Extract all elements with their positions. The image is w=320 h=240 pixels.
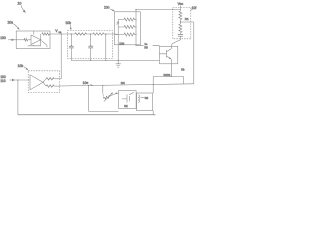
box Q outline	[137, 93, 153, 111]
U1 apex dot	[40, 39, 41, 40]
ladder wire	[67, 33, 118, 36]
junction bus3	[153, 84, 154, 85]
row dots right	[136, 19, 137, 20]
box 10c outline	[114, 12, 140, 45]
input drop to rail	[17, 80, 19, 115]
divider resistor Ra2	[124, 25, 135, 28]
resistor Rc2	[179, 24, 182, 33]
junction shuntb	[105, 60, 106, 61]
U2 lower wire to bus	[54, 85, 59, 87]
cap bottom wire	[71, 60, 159, 62]
svg-text:10a: 10a	[7, 20, 13, 24]
divider resistor Ra1	[124, 18, 135, 21]
ground	[116, 61, 121, 68]
svg-text:Vcc: Vcc	[178, 2, 184, 6]
box 10c left bus	[115, 20, 118, 61]
junction emitter	[171, 76, 172, 77]
U1 output wire	[40, 34, 42, 40]
input wire 1	[8, 39, 24, 41]
wire cap to collector	[171, 40, 180, 47]
junction gnd	[118, 60, 119, 61]
U1 diagonal feedback	[41, 41, 47, 48]
emitter wire	[170, 59, 172, 76]
svg-text:R1: R1	[185, 17, 189, 21]
output resistor R0	[42, 33, 50, 35]
top wire to Vcc box	[136, 9, 180, 11]
svg-text:10c: 10c	[104, 5, 110, 9]
bus drop to sensor	[102, 85, 104, 93]
U2 upper output lead	[43, 79, 46, 82]
leader 10f	[191, 9, 193, 10]
small mark in 10c	[116, 21, 119, 24]
junction top wire right	[172, 9, 173, 10]
box P outline	[119, 91, 137, 109]
svg-text:101: 101	[121, 81, 126, 85]
svg-text:R5: R5	[144, 45, 148, 49]
U2 lower output lead	[43, 82, 46, 86]
node vdiv	[180, 21, 181, 22]
collector wire	[170, 46, 172, 48]
resistor Rc1	[179, 11, 182, 20]
svg-text:100: 100	[0, 36, 6, 40]
node Voa dot	[61, 33, 62, 34]
arrow across sensor	[104, 93, 112, 101]
junction n1	[71, 33, 72, 34]
input arrow 2	[12, 79, 15, 81]
op-amp U1	[31, 35, 41, 45]
rail riser to sense box	[152, 111, 154, 115]
svg-text:10d: 10d	[119, 41, 124, 45]
link down to sense box	[152, 77, 154, 94]
input arrow 1	[12, 39, 15, 41]
junction n2	[90, 33, 91, 34]
sensor lead upper	[102, 94, 105, 96]
junction top wire	[135, 9, 136, 10]
svg-text:R6: R6	[145, 96, 149, 100]
feedback wire Voa to lower amp	[60, 34, 62, 79]
capacitor C3	[179, 33, 181, 40]
leader arrow 10c	[110, 9, 113, 11]
leader arrow for label 10	[21, 5, 24, 11]
dashed box ladder	[67, 31, 112, 59]
op-amp U2	[30, 75, 43, 90]
leader 10g	[24, 67, 27, 69]
wire 10c to driver	[136, 44, 160, 46]
svg-text:10b: 10b	[18, 64, 24, 68]
svg-text:110: 110	[0, 79, 5, 83]
bottom rail	[18, 114, 156, 116]
photo resistor	[103, 95, 110, 99]
U2 lower resistor	[46, 85, 54, 87]
divider resistor Ra3	[124, 33, 135, 36]
junction c2b	[90, 60, 91, 61]
box 10c right bus	[135, 10, 137, 46]
input resistor	[24, 39, 28, 42]
dashed box 10f	[173, 7, 191, 38]
svg-text:10b: 10b	[65, 21, 71, 25]
ladder shunt wire	[105, 34, 107, 61]
leader arrow 10b	[69, 25, 72, 29]
junction input2	[17, 79, 18, 80]
battery in box P	[122, 92, 134, 102]
bus wire	[60, 84, 194, 86]
U2 upper wire to feedback	[54, 78, 61, 80]
svg-text:10: 10	[17, 2, 21, 6]
ladder resistor R1	[75, 33, 87, 35]
Vcc terminal tick	[179, 6, 181, 10]
svg-text:M1: M1	[124, 104, 128, 108]
junction base wire	[135, 45, 136, 46]
transistor Q1	[160, 49, 172, 60]
leader arrow for 10a	[14, 24, 19, 28]
box driver outline	[160, 46, 178, 64]
capacitor C2	[90, 34, 92, 61]
wire to node Voa	[49, 33, 67, 35]
bus drop left	[89, 86, 119, 112]
junction bus1	[88, 85, 89, 86]
cap C2 top dot	[90, 45, 91, 46]
U1 top pin	[33, 31, 35, 35]
capacitor C1	[70, 34, 72, 61]
coil in box Q	[138, 95, 139, 103]
leader 10e	[90, 84, 92, 87]
box lower amp	[28, 71, 59, 93]
sensor arrow into box	[116, 92, 119, 94]
svg-text:Rb: Rb	[181, 68, 185, 72]
sensor lead right	[110, 93, 117, 96]
junction n3	[105, 33, 106, 34]
U2 upper resistor	[46, 78, 54, 80]
wire node to right bus	[180, 22, 193, 84]
cap C1 top dot	[71, 45, 72, 46]
U1 feedback loop	[28, 40, 41, 46]
svg-text:10e: 10e	[83, 81, 89, 85]
input wire 2	[10, 79, 30, 81]
ladder resistor R2	[93, 33, 104, 35]
emitter return wire	[153, 77, 183, 85]
box Q wire	[140, 96, 144, 98]
box 10a	[16, 31, 50, 49]
junction bus2	[102, 85, 103, 86]
